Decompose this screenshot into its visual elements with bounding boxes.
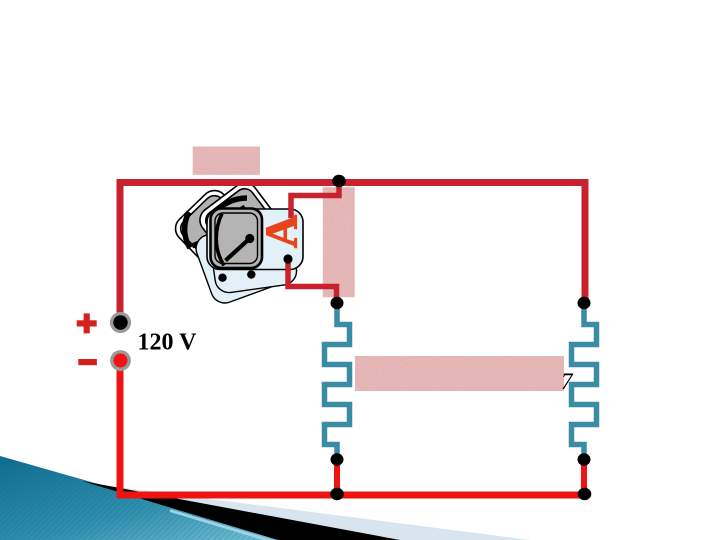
battery + terminal: [110, 312, 131, 333]
minus sign: [78, 359, 97, 365]
svg-text:120 V: 120 V: [138, 330, 198, 356]
front plate: [207, 209, 303, 270]
wire: ammeter branch from top junction: [291, 181, 339, 218]
back meter shell 2: [195, 178, 287, 270]
highlight mask (middle branch): [323, 187, 355, 297]
back meter shell 1: [170, 185, 258, 273]
junction node: bottom-right corner: [578, 488, 592, 500]
wire: ammeter output to resistor R1: [288, 259, 337, 303]
resistor R2: [572, 305, 597, 458]
ammeter terminal dot: [283, 254, 292, 263]
wire: R1 bottom stub: [334, 459, 340, 495]
wire: positive bus (battery + to top and right side): [120, 183, 585, 323]
wire: negative bus (battery - to bottom wire): [120, 360, 586, 495]
highlight mask (resistor values): [355, 356, 564, 391]
lower plate (rotated): [192, 212, 293, 307]
junction node: R1 bottom: [331, 453, 344, 465]
highlight mask (top label): [193, 147, 564, 392]
junction node: R1 top: [331, 297, 344, 309]
plus sign: [77, 313, 97, 333]
ammeter A (body): [170, 178, 303, 307]
junction node: R2 top: [578, 297, 591, 309]
junction node: bottom wire below R1: [330, 488, 344, 500]
front dial: [211, 209, 263, 269]
needle: [226, 240, 249, 261]
junction node: top of middle branch: [332, 175, 346, 187]
svg-text:A: A: [256, 215, 307, 248]
resistor R1: [325, 305, 350, 458]
back meter dial marks: [185, 212, 190, 248]
junction node: R2 bottom: [578, 453, 591, 465]
lower plate 2: [208, 216, 299, 295]
wire: R2 bottom stub: [581, 459, 587, 495]
plate terminal dots: [218, 274, 226, 282]
battery - terminal: [110, 350, 131, 371]
